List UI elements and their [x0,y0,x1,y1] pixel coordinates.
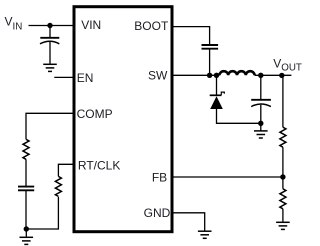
node FB junction dot [280,174,285,179]
wire R3 to FB node [282,147,284,177]
ground output cap [254,131,268,138]
wire input cap top lead [49,26,51,38]
wire C3 bottom to SW [209,49,211,76]
inductor L1 [219,71,254,75]
svg-text:EN: EN [77,71,94,85]
wire EN stub [54,76,74,78]
wire R4 to ground [282,209,284,222]
capacitor C2 compensation [18,187,34,191]
svg-text:VIN: VIN [5,14,23,32]
ground feedback divider [276,222,290,229]
resistor R1 compensation [23,139,29,159]
resistor R4 feedback lower [280,189,286,209]
capacitor C4 output [251,100,271,107]
wire SW output [172,74,219,76]
wire output cap top lead [260,75,262,99]
node VIN junction dot [47,23,52,28]
capacitor C3 bootstrap [202,45,219,49]
IC U1 (regulator) outline [74,7,172,232]
wire BOOT to C3 [172,27,210,45]
node diode/outcap ground junction dot [258,121,263,126]
resistor R3 feedback upper [280,127,286,147]
wire GND pin to ground [172,213,205,231]
wire C2 bottom lead [25,190,27,229]
node diode junction dot [214,73,219,78]
wire R2 bottom to junction [26,197,58,229]
svg-text:COMP: COMP [77,107,113,121]
wire L1 to VOUT [255,74,292,76]
wire junction to ground [25,229,27,237]
wire output cap bottom lead [260,105,262,124]
wire FB node to R4 [282,177,284,189]
wire FB [172,176,283,178]
node comp/rt junction dot [24,226,29,231]
svg-text:RT/CLK: RT/CLK [78,158,120,172]
capacitor C1 input bypass [40,38,59,44]
node output cap junction dot [258,73,263,78]
wire diode anode to ground net [217,109,261,123]
wire RT/CLK to R2 [58,164,74,176]
svg-text:VIN: VIN [81,18,101,32]
ground input cap [43,64,57,71]
wire COMP to RC network [26,113,74,139]
wire R1 to C2 [25,159,27,186]
svg-text:SW: SW [148,69,168,83]
wire diode cathode lead [216,75,218,95]
ground comp network [20,237,34,244]
wire input cap bottom lead [49,42,51,64]
svg-text:BOOT: BOOT [134,19,169,33]
resistor R2 timing [55,176,61,196]
diode D1 catch schottky [210,92,225,109]
svg-text:GND: GND [144,206,171,220]
svg-text:VOUT: VOUT [273,56,302,73]
svg-text:FB: FB [152,170,167,184]
wire VIN input [29,25,75,27]
wire junction to ground [260,123,262,130]
wire VOUT to divider R3 [282,76,284,128]
node boot cap junction dot [207,73,212,78]
node VOUT junction dot [279,73,284,78]
ground GND pin [198,231,212,238]
